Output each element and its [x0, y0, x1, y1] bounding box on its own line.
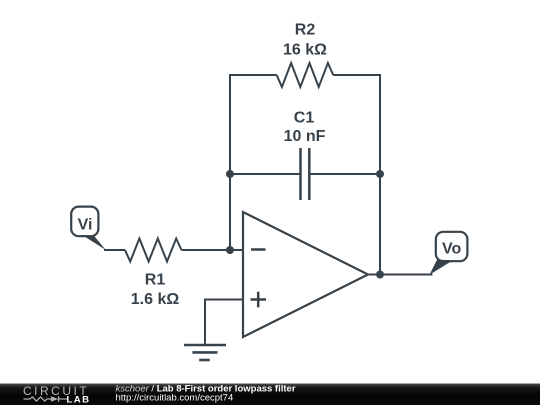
- svg-text:16 kΩ: 16 kΩ: [283, 42, 327, 59]
- svg-text:Vo: Vo: [442, 241, 461, 258]
- wire right rail (output feedback vertical): [379, 75, 381, 275]
- svg-text:Vi: Vi: [78, 217, 93, 234]
- op-amp U1: [243, 212, 368, 337]
- CircuitLab logo: [23, 384, 90, 405]
- svg-text:1.6 kΩ: 1.6 kΩ: [131, 291, 180, 308]
- wire op-amp output: [368, 274, 433, 276]
- resistor R2: [277, 63, 334, 87]
- ground: [184, 345, 226, 360]
- node junction inverting input: [226, 246, 234, 254]
- flag Vo: [430, 232, 468, 275]
- svg-text:10 nF: 10 nF: [284, 128, 326, 145]
- wire C1 left lead: [229, 173, 300, 175]
- resistor R1: [125, 239, 182, 262]
- svg-text:http://circuitlab.com/cecpt74: http://circuitlab.com/cecpt74: [116, 393, 234, 404]
- svg-text:LAB: LAB: [67, 395, 91, 405]
- wire R2 right lead: [333, 74, 381, 76]
- node junction output: [376, 271, 384, 279]
- wire R2 left lead: [229, 74, 277, 76]
- capacitor C1 label: [284, 110, 326, 146]
- footer bar: [0, 384, 540, 405]
- wire left feedback rail (node A vertical): [229, 75, 231, 250]
- wire C1 right lead: [310, 173, 381, 175]
- svg-text:C1: C1: [294, 110, 315, 127]
- node junction right C1: [376, 170, 384, 178]
- wire Vi to R1: [104, 249, 125, 251]
- footer title text: [116, 383, 296, 403]
- resistor R2 label: [283, 21, 327, 58]
- flag Vi: [71, 207, 106, 250]
- wire R1 to op-amp inverting input: [182, 249, 244, 251]
- wire non-inverting input to ground: [205, 300, 243, 346]
- capacitor C1: [301, 148, 310, 200]
- svg-text:R2: R2: [295, 21, 316, 38]
- svg-text:R1: R1: [145, 272, 166, 289]
- node junction left C1: [226, 170, 234, 178]
- resistor R1 label: [131, 272, 180, 309]
